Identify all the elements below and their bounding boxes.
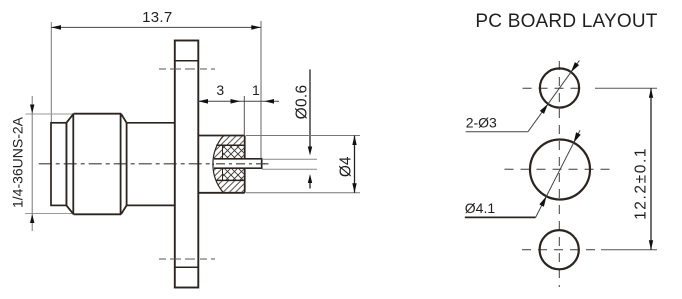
svg-text:13.7: 13.7 (142, 9, 172, 26)
svg-text:Ø0.6: Ø0.6 (294, 85, 311, 120)
svg-text:1: 1 (252, 82, 260, 98)
svg-text:Ø4.1: Ø4.1 (465, 200, 496, 216)
bottom hole circle (540, 230, 579, 269)
flange (175, 41, 199, 288)
bottom hole centerline (522, 249, 598, 251)
top hole centerline (523, 87, 586, 89)
center pin (214, 158, 269, 169)
svg-text:PC BOARD LAYOUT: PC BOARD LAYOUT (475, 11, 657, 32)
label 1/4-36UNS-2A with extent arrows (10, 96, 74, 231)
barrel between hex and flange (127, 123, 175, 206)
leader diameter4.1 (465, 130, 581, 217)
svg-text:1/4-36UNS-2A: 1/4-36UNS-2A (10, 116, 26, 208)
dimension 13.7 (51, 9, 261, 159)
thread barrel (51, 123, 66, 206)
dimension 12.2 plus-minus 0.1 (595, 88, 657, 249)
body tube behind flange (198, 136, 244, 193)
dimension diameter 0.6 (262, 69, 317, 188)
leader 2-diameter3 (466, 60, 580, 131)
middle hole circle (530, 140, 590, 200)
svg-text:2-Ø3: 2-Ø3 (466, 114, 497, 130)
middle hole centerline (505, 168, 613, 170)
top hole circle (540, 68, 579, 107)
bead band boundary lines (216, 145, 245, 180)
svg-text:3: 3 (216, 82, 224, 98)
wire main centerline axis (39, 163, 269, 165)
dielectric bead front arc (213, 136, 224, 193)
dimension 3 and 1 (198, 82, 279, 136)
mounting hole centerline top (159, 68, 215, 70)
svg-text:12.2±0.1: 12.2±0.1 (633, 147, 650, 220)
dimension diameter 4 (246, 136, 360, 193)
svg-text:Ø4: Ø4 (338, 156, 355, 177)
hole pattern vertical centerline (558, 61, 560, 287)
mounting hole centerline bottom (159, 258, 215, 260)
dielectric bead hatching (205, 134, 246, 194)
hex nut body (66, 114, 126, 215)
